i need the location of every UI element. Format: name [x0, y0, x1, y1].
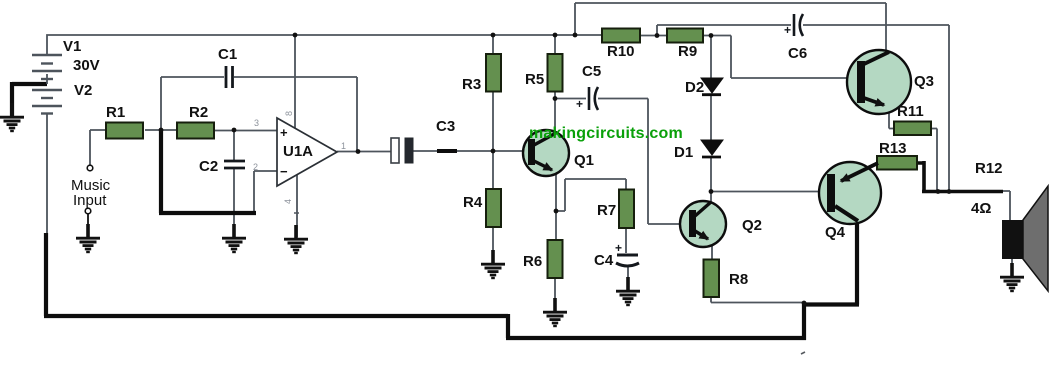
svg-text:4Ω: 4Ω	[971, 200, 991, 217]
svg-text:+: +	[280, 125, 288, 140]
svg-text:R5: R5	[525, 71, 544, 88]
svg-text:+: +	[784, 23, 791, 37]
svg-text:Q3: Q3	[914, 73, 934, 90]
svg-text:R7: R7	[597, 202, 616, 219]
svg-text:R13: R13	[879, 140, 907, 157]
svg-text:+: +	[576, 97, 583, 111]
svg-text:Input: Input	[73, 192, 107, 209]
svg-text:V2: V2	[74, 82, 92, 99]
svg-text:U1A: U1A	[283, 143, 313, 160]
svg-text:makingcircuits.com: makingcircuits.com	[529, 125, 683, 142]
svg-text:R4: R4	[463, 194, 483, 211]
svg-text:C6: C6	[788, 45, 807, 62]
svg-text:R10: R10	[607, 43, 635, 60]
svg-text:V1: V1	[63, 38, 81, 55]
svg-text:4: 4	[283, 199, 293, 204]
svg-text:Q1: Q1	[574, 152, 594, 169]
svg-text:D2: D2	[685, 79, 704, 96]
svg-text:C2: C2	[199, 158, 218, 175]
svg-text:C4: C4	[594, 252, 614, 269]
svg-text:C1: C1	[218, 46, 237, 63]
svg-text:Q4: Q4	[825, 224, 846, 241]
svg-text:R3: R3	[462, 76, 481, 93]
svg-text:R11: R11	[897, 103, 924, 120]
svg-text:R12: R12	[975, 160, 1003, 177]
svg-text:−: −	[280, 164, 288, 179]
svg-text:C5: C5	[582, 63, 601, 80]
svg-text:R6: R6	[523, 253, 542, 270]
svg-text:30V: 30V	[73, 57, 100, 74]
svg-text:2: 2	[253, 162, 258, 172]
svg-text:+: +	[615, 241, 622, 255]
svg-text:1: 1	[341, 141, 346, 151]
svg-text:8: 8	[284, 111, 294, 116]
svg-text:3: 3	[254, 118, 259, 128]
svg-text:C3: C3	[436, 118, 455, 135]
svg-text:R8: R8	[729, 271, 748, 288]
svg-text:R2: R2	[189, 104, 208, 121]
svg-text:D1: D1	[674, 144, 693, 161]
svg-text:R1: R1	[106, 104, 125, 121]
svg-text:R9: R9	[678, 43, 697, 60]
svg-text:Q2: Q2	[742, 217, 762, 234]
